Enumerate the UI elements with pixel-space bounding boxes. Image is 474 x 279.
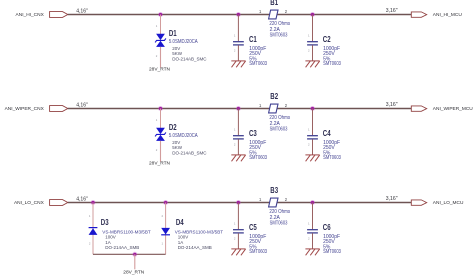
svg-text:4,16": 4,16" — [76, 8, 88, 14]
ferrite bead B3 — [269, 198, 278, 207]
junction on return wire — [132, 252, 137, 257]
connector port ANI_WIPER_CNX — [50, 106, 68, 112]
capacitor C1 — [233, 42, 244, 45]
wire — [237, 109, 239, 136]
junction at D4 branch — [163, 200, 168, 205]
junction at D2 branch — [158, 106, 163, 111]
svg-text:3,16": 3,16" — [386, 8, 398, 14]
svg-text:ANI_WIPER_CNX: ANI_WIPER_CNX — [5, 106, 45, 112]
capacitor C2 — [307, 42, 318, 45]
wire — [134, 254, 136, 269]
ground — [231, 61, 245, 67]
junction at D1 branch — [158, 12, 163, 17]
ferrite bead B1 — [269, 10, 278, 19]
svg-text:28V_RTN: 28V_RTN — [123, 269, 145, 275]
svg-text:D1: D1 — [169, 29, 177, 38]
wire — [237, 139, 239, 155]
svg-text:5.0SMDJ20CA: 5.0SMDJ20CA — [169, 39, 198, 45]
wire — [312, 45, 314, 61]
svg-text:C2: C2 — [323, 35, 331, 44]
junction at C6 branch — [310, 200, 315, 205]
capacitor C6 — [307, 230, 318, 233]
junction at C2 branch — [310, 12, 315, 17]
wire — [68, 14, 412, 16]
svg-text:DO-214AA_SMB: DO-214AA_SMB — [178, 245, 212, 250]
wire — [237, 15, 239, 42]
diode D4 — [161, 228, 170, 235]
wire — [237, 45, 239, 61]
svg-text:C1: C1 — [249, 35, 257, 44]
wire — [160, 109, 162, 129]
svg-text:SMT0603: SMT0603 — [323, 249, 341, 255]
svg-text:SMT0603: SMT0603 — [323, 155, 341, 161]
wire — [165, 203, 167, 255]
wire — [312, 203, 314, 230]
svg-text:4,16": 4,16" — [76, 102, 88, 108]
svg-text:ANI_HI_MCU: ANI_HI_MCU — [433, 12, 463, 18]
svg-text:ANI_WIPER_MCU: ANI_WIPER_MCU — [433, 106, 474, 112]
wire — [237, 233, 239, 249]
diode D3 — [89, 228, 98, 235]
connector port ANI_HI_CNX — [50, 12, 68, 18]
wire — [312, 109, 314, 136]
svg-text:SMT0603: SMT0603 — [323, 61, 341, 67]
svg-text:DO-214AB_SMC: DO-214AB_SMC — [172, 150, 207, 155]
wire — [312, 233, 314, 249]
svg-text:28V_RTN: 28V_RTN — [149, 66, 171, 72]
svg-text:B2: B2 — [270, 92, 278, 101]
wire — [312, 15, 314, 42]
capacitor C4 — [307, 136, 318, 139]
svg-text:28V_RTN: 28V_RTN — [149, 160, 171, 166]
junction at C3 branch — [236, 106, 241, 111]
svg-text:ANI_LO_MCU: ANI_LO_MCU — [433, 200, 464, 206]
ground — [231, 249, 245, 255]
svg-text:5.0SMDJ20CA: 5.0SMDJ20CA — [169, 133, 198, 139]
svg-text:SMT0603: SMT0603 — [249, 61, 267, 67]
ground — [305, 61, 319, 67]
TVS diode D2 — [155, 128, 166, 141]
connector port ANI_LO_CNX — [50, 200, 68, 206]
svg-text:D2: D2 — [169, 123, 177, 132]
wire — [68, 202, 412, 204]
svg-text:C5: C5 — [249, 223, 257, 232]
junction at C1 branch — [236, 12, 241, 17]
svg-text:SMT0603: SMT0603 — [249, 249, 267, 255]
junction at C4 branch — [310, 106, 315, 111]
svg-text:SMT0603: SMT0603 — [270, 220, 288, 226]
wire — [160, 141, 162, 162]
wire — [92, 203, 94, 255]
svg-text:3,16": 3,16" — [386, 196, 398, 202]
capacitor C5 — [233, 230, 244, 233]
wire — [160, 47, 162, 68]
svg-text:SMT0603: SMT0603 — [270, 126, 288, 132]
connector port ANI_HI_MCU — [411, 12, 426, 17]
connector port ANI_LO_MCU — [411, 200, 426, 205]
svg-text:SMT0603: SMT0603 — [270, 32, 288, 38]
ground — [231, 155, 245, 161]
connector port ANI_WIPER_MCU — [411, 106, 426, 111]
svg-text:C4: C4 — [323, 129, 331, 138]
svg-text:4,16": 4,16" — [76, 196, 88, 202]
svg-text:ANI_LO_CNX: ANI_LO_CNX — [14, 200, 45, 206]
svg-text:B1: B1 — [270, 0, 278, 7]
svg-text:B3: B3 — [270, 186, 278, 195]
svg-text:D4: D4 — [176, 218, 184, 227]
junction at C5 branch — [236, 200, 241, 205]
svg-text:D3: D3 — [101, 218, 109, 227]
svg-text:C3: C3 — [249, 129, 257, 138]
wire — [312, 139, 314, 155]
svg-text:ANI_HI_CNX: ANI_HI_CNX — [16, 12, 45, 18]
wire — [237, 203, 239, 230]
ground — [305, 155, 319, 161]
capacitor C3 — [233, 136, 244, 139]
svg-text:20V: 20V — [172, 140, 180, 145]
ferrite bead B2 — [269, 104, 278, 113]
junction at D3 branch — [91, 200, 96, 205]
svg-text:DO-214AA_SMB: DO-214AA_SMB — [105, 245, 139, 250]
wire — [93, 253, 166, 255]
wire — [160, 15, 162, 35]
svg-text:SMT0603: SMT0603 — [249, 155, 267, 161]
svg-text:DO-214AB_SMC: DO-214AB_SMC — [172, 56, 207, 61]
TVS diode D1 — [155, 34, 166, 47]
svg-text:20V: 20V — [172, 46, 180, 51]
wire — [68, 108, 412, 110]
svg-text:C6: C6 — [323, 223, 331, 232]
ground — [305, 249, 319, 255]
svg-text:3,16": 3,16" — [386, 102, 398, 108]
